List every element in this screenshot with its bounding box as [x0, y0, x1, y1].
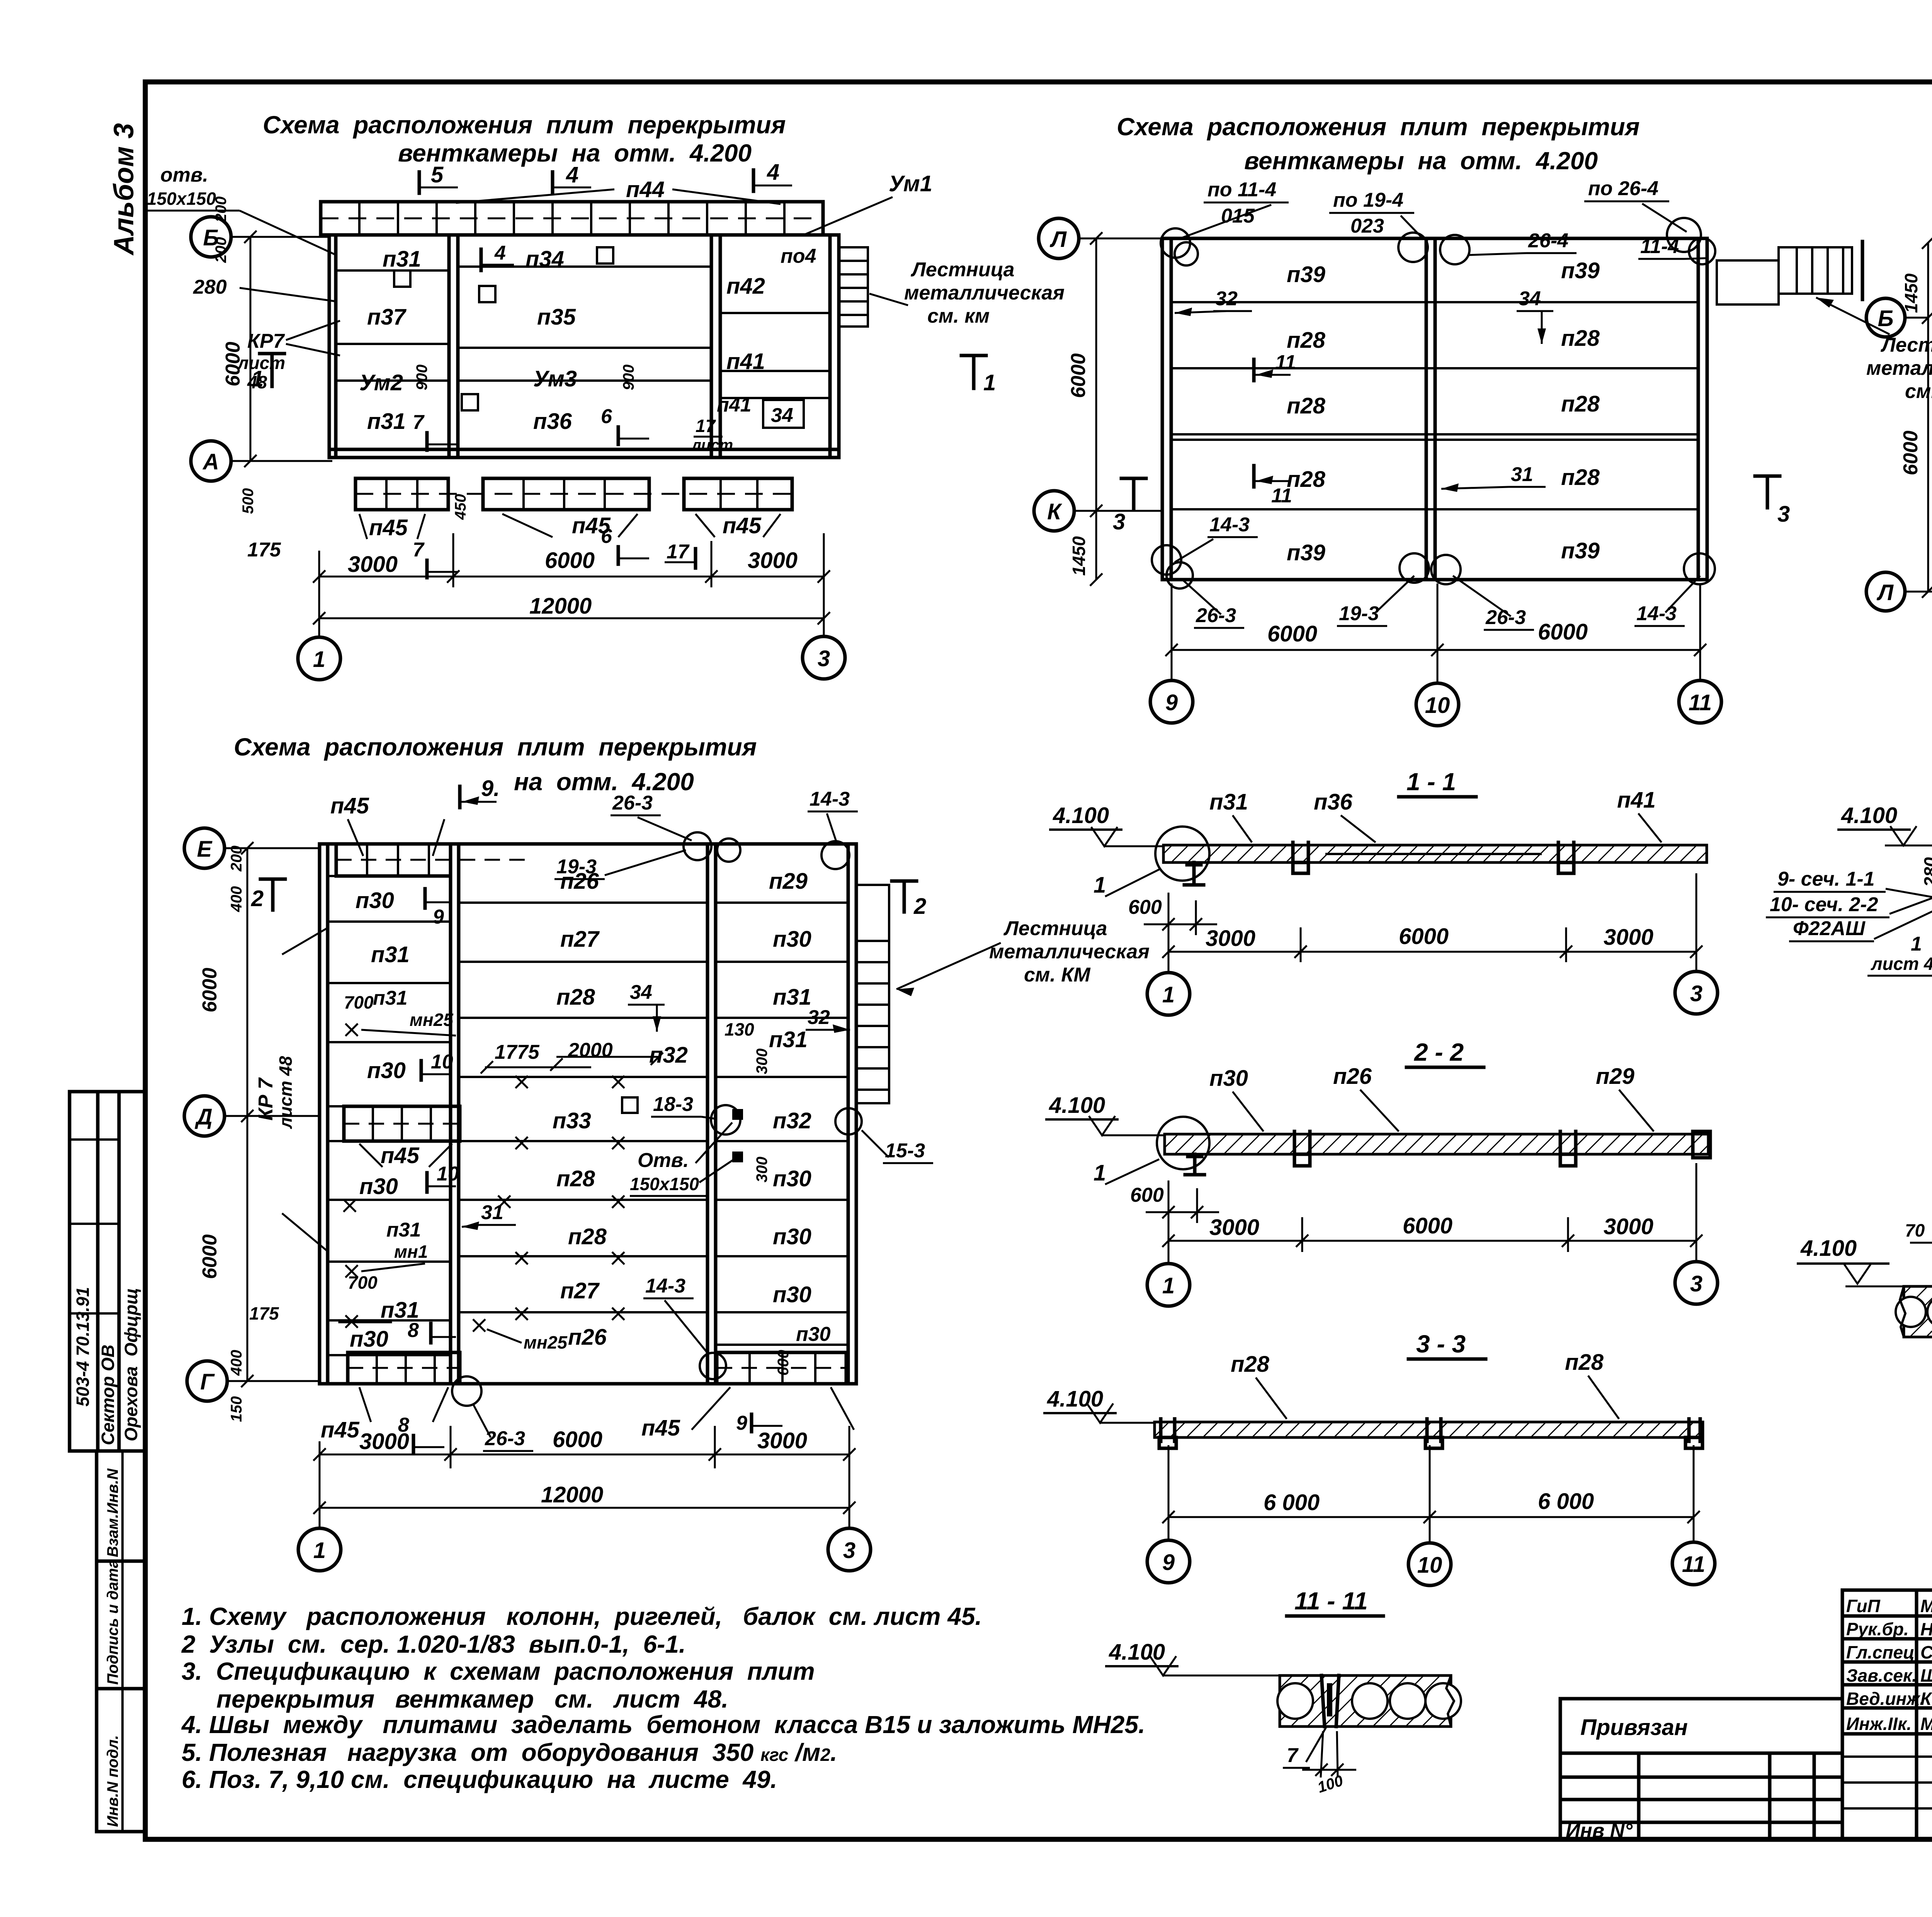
svg-text:280: 280 — [193, 276, 227, 298]
КР7 лист 48 rotated — [255, 927, 328, 1252]
svg-text:п28: п28 — [1287, 328, 1326, 353]
svg-text:п30: п30 — [773, 927, 811, 952]
svg-text:175: 175 — [247, 539, 281, 561]
svg-text:п36: п36 — [533, 409, 572, 434]
svg-text:Е: Е — [197, 837, 213, 862]
мн25 upper left — [344, 992, 456, 1036]
700 lower — [340, 1272, 390, 1328]
П45 labels bottom — [359, 514, 425, 540]
svg-text:Взам.Инв.N: Взам.Инв.N — [104, 1468, 121, 1557]
stairs right of plan — [839, 247, 868, 327]
svg-text:503-4 70.13.91: 503-4 70.13.91 — [73, 1287, 93, 1407]
right column slab lines — [720, 313, 830, 398]
svg-text:Б: Б — [1878, 306, 1893, 331]
svg-text:10: 10 — [431, 1051, 453, 1073]
dim 600 s22 — [1130, 1184, 1219, 1223]
П44 label — [456, 177, 781, 204]
svg-text:2000: 2000 — [568, 1039, 613, 1061]
svg-text:п31: п31 — [367, 409, 406, 434]
svg-text:18-3: 18-3 — [653, 1093, 693, 1116]
flag 8 left bottom — [408, 1319, 456, 1343]
svg-text:п31: п31 — [769, 1027, 808, 1052]
flag 11 upper — [1254, 351, 1296, 381]
svg-text:12000: 12000 — [529, 594, 592, 619]
svg-text:п35: п35 — [537, 304, 576, 330]
svg-text:26-3: 26-3 — [612, 792, 653, 814]
section flag 1 left — [251, 354, 284, 391]
svg-text:11: 11 — [1689, 690, 1712, 715]
лестница text scheme4 — [896, 917, 1150, 996]
leader 26-3 bottom mid — [1453, 576, 1534, 630]
svg-text:Л: Л — [1049, 227, 1067, 252]
elevation 4.100 s11 — [1049, 803, 1165, 846]
svg-text:34: 34 — [630, 981, 652, 1004]
svg-text:по4: по4 — [781, 245, 816, 267]
dim 1775 2000 — [481, 1039, 663, 1073]
svg-text:450: 450 — [452, 494, 469, 520]
svg-text:Подпись и дата: Подпись и дата — [104, 1560, 121, 1685]
left stamp column lower boxes — [97, 1451, 145, 1832]
svg-text:015: 015 — [1221, 205, 1255, 227]
svg-text:п41: п41 — [717, 394, 752, 416]
svg-text:п37: п37 — [367, 304, 407, 330]
П45 label at Д — [359, 1143, 452, 1168]
hole square П33 — [622, 1097, 638, 1113]
svg-text:п44: п44 — [626, 177, 665, 202]
svg-text:п26: п26 — [568, 1325, 607, 1350]
svg-text:023: 023 — [1350, 215, 1384, 237]
grid circle 10 — [1416, 683, 1459, 726]
17 лист — [691, 416, 733, 454]
label 34 scheme4 — [628, 981, 665, 1032]
vertical dim 6000 right plan — [1900, 318, 1932, 598]
svg-text:900: 900 — [413, 364, 430, 390]
svg-text:3000: 3000 — [348, 552, 398, 577]
svg-text:175: 175 — [249, 1303, 279, 1323]
svg-text:п45: п45 — [381, 1143, 420, 1168]
flag 9 bottom right — [736, 1412, 782, 1434]
circle 1 s11 — [1147, 973, 1190, 1015]
slab drawing s1010 — [1896, 1276, 1932, 1388]
svg-text:Стрехнин: Стрехнин — [1920, 1642, 1932, 1662]
svg-text:п28: п28 — [1561, 326, 1600, 351]
svg-text:19-3: 19-3 — [1339, 602, 1379, 625]
svg-text:32: 32 — [808, 1006, 830, 1029]
elevation 4.100 s22 — [1045, 1093, 1166, 1135]
flag 2 left — [251, 879, 285, 911]
svg-text:3000: 3000 — [1604, 925, 1653, 950]
svg-text:9: 9 — [1165, 690, 1178, 715]
leader 14-3 lower — [643, 1275, 726, 1379]
leader 19-3 bottom — [1337, 576, 1414, 626]
лестница text scheme2 — [1816, 298, 1932, 403]
grid circle 1 — [298, 618, 340, 680]
svg-text:п29: п29 — [1596, 1064, 1634, 1089]
svg-text:Рук.бр.: Рук.бр. — [1846, 1619, 1909, 1639]
elevation 4.100 s1010 — [1797, 1236, 1905, 1286]
svg-text:п30: п30 — [359, 1174, 398, 1199]
svg-text:п33: п33 — [553, 1108, 591, 1133]
svg-text:14-3: 14-3 — [1209, 514, 1250, 536]
svg-text:Кирьянова: Кирьянова — [1920, 1689, 1932, 1709]
svg-text:п45: п45 — [641, 1415, 680, 1441]
svg-text:КР7: КР7 — [247, 330, 285, 352]
svg-text:п39: п39 — [1287, 540, 1325, 565]
svg-text:п45: п45 — [723, 513, 762, 538]
svg-text:Ум3: Ум3 — [533, 366, 577, 391]
flag 5 — [419, 162, 458, 193]
svg-text:п41: п41 — [1617, 788, 1656, 813]
flag 4 lower mid — [481, 242, 514, 270]
flag 6 — [601, 405, 649, 444]
svg-text:15-3: 15-3 — [885, 1140, 925, 1162]
section 2-2 title — [1406, 1038, 1484, 1067]
svg-text:1. Схему расположения коло: 1. Схему расположения колонн, ригелей, б… — [182, 1602, 982, 1630]
svg-text:1 - 1: 1 - 1 — [1406, 768, 1456, 796]
svg-text:А: А — [202, 449, 219, 475]
middle column slab rows — [459, 903, 707, 1312]
interior wall at axis 2 area — [449, 235, 458, 458]
label 31 arrow — [1441, 463, 1546, 492]
dim row 1-1 — [1162, 873, 1702, 973]
svg-text:отв.: отв. — [160, 164, 208, 186]
svg-text:3: 3 — [1690, 981, 1702, 1006]
svg-text:700: 700 — [344, 992, 374, 1012]
svg-text:п32: п32 — [649, 1043, 688, 1068]
svg-text:4: 4 — [494, 242, 506, 264]
svg-text:9: 9 — [433, 906, 444, 928]
svg-text:Г: Г — [200, 1369, 215, 1395]
svg-text:1450: 1450 — [1901, 273, 1921, 313]
grid circle 3 bottom — [828, 1508, 871, 1571]
hatch band П45 bottom-right — [717, 1352, 846, 1384]
svg-text:200: 200 — [213, 196, 230, 223]
svg-text:п30: п30 — [367, 1058, 406, 1083]
svg-text:п28: п28 — [556, 1166, 595, 1191]
svg-text:4.100: 4.100 — [1800, 1236, 1857, 1261]
svg-text:металлическая: металлическая — [1866, 357, 1932, 379]
svg-text:см. КМ: см. КМ — [1024, 964, 1091, 986]
slab labels 3-3 — [1231, 1352, 1287, 1419]
grid circle 9 — [1150, 680, 1193, 723]
plan walls scheme2 — [1162, 238, 1707, 580]
svg-text:Орехова Офцрщ: Орехова Офцрщ — [121, 1288, 141, 1441]
circle 3 s22 — [1675, 1262, 1718, 1304]
flag 17 bottom — [665, 541, 696, 568]
svg-text:1: 1 — [1094, 1160, 1106, 1186]
slab band 3-3 — [1155, 1419, 1703, 1448]
dim 900 marks — [413, 364, 637, 390]
КР7 лист 48 label — [237, 321, 340, 392]
section 3-3 title — [1408, 1330, 1486, 1359]
right column slab rows — [716, 903, 848, 1345]
svg-text:600: 600 — [1130, 1184, 1164, 1206]
лестница text scheme1 — [869, 259, 1065, 327]
svg-text:9: 9 — [736, 1412, 747, 1434]
svg-text:1: 1 — [1094, 873, 1106, 898]
svg-text:1: 1 — [983, 370, 996, 395]
svg-text:п30: п30 — [350, 1327, 388, 1352]
svg-text:10: 10 — [1417, 1553, 1442, 1578]
отв 150х150 label — [147, 164, 336, 255]
label 31 scheme4 — [462, 1201, 516, 1230]
leader 14-3 upper left — [1175, 514, 1258, 562]
svg-text:6000: 6000 — [1900, 430, 1922, 475]
dim row 12000 — [313, 594, 830, 624]
plan outer walls — [329, 235, 839, 458]
interior wall right — [711, 235, 720, 458]
svg-text:п32: п32 — [773, 1108, 811, 1133]
personnel table — [1842, 1590, 1932, 1839]
dim row 2-2 — [1162, 1163, 1702, 1264]
flag 4 mid — [553, 162, 591, 193]
leader 26-3 top — [611, 792, 692, 840]
svg-text:п45: п45 — [369, 515, 408, 540]
section 11-11 title — [1287, 1587, 1383, 1616]
vertical dim 6000 upper — [199, 842, 253, 1122]
section 1-1 title — [1399, 768, 1476, 797]
svg-text:Схема расположения плит пер: Схема расположения плит перекрытия — [234, 733, 757, 761]
svg-text:п27: п27 — [560, 927, 600, 952]
П45 label bottom-left — [321, 1387, 448, 1442]
svg-text:1: 1 — [313, 1538, 326, 1563]
leader по 11-4 / 015 — [1182, 179, 1289, 238]
corner circles scheme4 top — [684, 832, 849, 869]
circle 10 s33 — [1408, 1543, 1451, 1585]
svg-text:9: 9 — [1162, 1550, 1175, 1575]
svg-text:п45: п45 — [330, 793, 369, 818]
vertical dim 6000 lower — [199, 1116, 253, 1387]
svg-text:1: 1 — [1911, 933, 1922, 955]
svg-text:по 19-4: по 19-4 — [1333, 189, 1403, 211]
leader 14-3 top right — [808, 788, 858, 842]
grid circle К — [1034, 491, 1163, 531]
svg-text:Номин: Номин — [1920, 1619, 1932, 1639]
svg-text:лист 45: лист 45 — [1871, 954, 1932, 974]
privyazan table — [1560, 1699, 1842, 1842]
label 32 with arrow — [1175, 287, 1252, 316]
middle column slab lines — [458, 267, 711, 381]
svg-text:26-3: 26-3 — [1485, 606, 1526, 629]
plan walls scheme4 — [320, 844, 856, 1384]
leader 14-3 bottom right — [1634, 576, 1700, 626]
svg-text:п45: п45 — [321, 1417, 360, 1442]
svg-text:6000: 6000 — [1538, 619, 1588, 645]
bottom dim row 12000 — [313, 1482, 855, 1514]
svg-text:п29: п29 — [769, 869, 808, 894]
svg-text:п28: п28 — [1561, 465, 1600, 490]
svg-text:3. Спецификацию к схемам р: 3. Спецификацию к схемам расположения пл… — [182, 1657, 815, 1685]
svg-text:по 26-4: по 26-4 — [1588, 177, 1658, 200]
top band П44 — [321, 202, 823, 235]
grid circle Г — [187, 1361, 321, 1401]
leader 26-3 bottom scheme4 — [452, 1376, 533, 1451]
svg-text:6 000: 6 000 — [1538, 1489, 1594, 1514]
svg-text:150: 150 — [228, 1396, 245, 1422]
svg-text:26-4: 26-4 — [1528, 230, 1568, 252]
circle 11 s33 — [1672, 1542, 1715, 1585]
slab 11-11 — [1277, 1675, 1461, 1726]
svg-text:металлическая: металлическая — [904, 282, 1065, 304]
corner node circles scheme2 — [1161, 228, 1198, 265]
svg-text:п28: п28 — [1565, 1350, 1604, 1375]
svg-text:Д: Д — [194, 1104, 213, 1129]
svg-text:130: 130 — [724, 1019, 754, 1039]
svg-text:300: 300 — [753, 1048, 770, 1074]
svg-text:3000: 3000 — [1604, 1214, 1653, 1239]
svg-text:3: 3 — [1777, 502, 1790, 527]
left column slab rows — [328, 876, 451, 1355]
svg-text:4. Швы между плитами задел: 4. Швы между плитами заделать бетоном кл… — [181, 1711, 1145, 1738]
svg-text:п30: п30 — [773, 1224, 811, 1249]
left stamp column upper box — [70, 1092, 145, 1451]
leader 7 s1111 — [1283, 1727, 1326, 1768]
hatch band П45 bottom-left — [348, 1352, 460, 1384]
svg-text:11-4: 11-4 — [1640, 235, 1679, 258]
svg-text:11: 11 — [1682, 1552, 1705, 1577]
svg-text:п31: п31 — [773, 985, 811, 1010]
svg-text:200: 200 — [213, 237, 230, 263]
grid circle 1 bottom — [298, 1508, 341, 1571]
svg-text:600: 600 — [775, 1350, 792, 1376]
leader 18-3 — [651, 1093, 740, 1135]
flag 11 lower — [1254, 466, 1292, 507]
svg-text:31: 31 — [481, 1201, 503, 1224]
svg-text:3 - 3: 3 - 3 — [1416, 1330, 1466, 1358]
svg-text:1: 1 — [1162, 1273, 1175, 1298]
grid circle Б right — [1866, 298, 1932, 337]
flag 4 right — [753, 160, 792, 191]
svg-text:металлическая: металлическая — [989, 941, 1150, 963]
svg-text:по 11-4: по 11-4 — [1207, 179, 1276, 201]
svg-text:Схема расположения плит пер: Схема расположения плит перекрытия — [263, 111, 786, 139]
svg-text:Схема расположения плит пер: Схема расположения плит перекрытия — [1117, 113, 1639, 141]
svg-text:6000: 6000 — [1399, 924, 1449, 949]
svg-text:Ум1: Ум1 — [889, 171, 932, 196]
svg-text:п31: п31 — [383, 247, 421, 272]
svg-text:п28: п28 — [1231, 1352, 1270, 1377]
circle 1 s22 — [1147, 1264, 1190, 1306]
svg-text:700: 700 — [348, 1272, 378, 1293]
svg-text:17: 17 — [696, 416, 716, 436]
grid circle 11 — [1679, 680, 1721, 723]
svg-text:6000: 6000 — [199, 968, 221, 1012]
dim 280 — [193, 276, 336, 301]
svg-text:Альбом 3: Альбом 3 — [109, 123, 139, 256]
svg-text:10: 10 — [1425, 693, 1450, 718]
svg-text:п31: п31 — [386, 1219, 421, 1241]
stairs top right scheme2 — [1717, 242, 1862, 304]
svg-text:3: 3 — [818, 646, 830, 671]
svg-text:6: 6 — [601, 405, 612, 428]
svg-text:венткамеры на отм. 4.200: венткамеры на отм. 4.200 — [1244, 147, 1598, 175]
wall squares — [732, 1109, 743, 1162]
svg-text:4.100: 4.100 — [1047, 1386, 1103, 1412]
small dims 200 400 top — [228, 845, 245, 912]
svg-text:п31: п31 — [371, 942, 410, 967]
svg-text:4: 4 — [566, 162, 578, 187]
svg-text:3000: 3000 — [757, 1428, 807, 1453]
svg-text:3000: 3000 — [1209, 1215, 1259, 1240]
leader 26-3 bottom — [1182, 580, 1244, 628]
slab labels 2-2 — [1209, 1066, 1264, 1131]
мн25 bottom — [473, 1319, 568, 1352]
elevation 4.100 node1 — [1837, 803, 1932, 845]
grid circle А — [191, 441, 332, 481]
svg-text:Михайлова: Михайлова — [1920, 1714, 1932, 1734]
node circle at left end 2-2 — [1157, 1117, 1209, 1175]
svg-text:34: 34 — [1519, 287, 1541, 310]
svg-text:300: 300 — [753, 1157, 770, 1182]
svg-text:6000: 6000 — [1267, 621, 1317, 646]
hole squares — [394, 247, 613, 410]
vertical dim 1450 right plan — [1901, 236, 1932, 324]
svg-text:5: 5 — [431, 162, 444, 187]
svg-text:600: 600 — [1128, 896, 1162, 919]
П45 label top — [330, 793, 444, 856]
svg-text:п28: п28 — [568, 1224, 607, 1249]
flag 9 left top inner — [425, 889, 450, 928]
svg-text:п26: п26 — [1333, 1064, 1372, 1089]
svg-text:6000: 6000 — [199, 1234, 221, 1279]
left column slab lines — [336, 270, 449, 381]
svg-text:п28: п28 — [1287, 393, 1326, 418]
svg-text:мн25: мн25 — [410, 1010, 454, 1030]
x marks middle column — [498, 1076, 624, 1320]
flag 6 bottom — [601, 525, 649, 564]
svg-text:п30: п30 — [355, 888, 394, 913]
dims 70 50 left s1010 — [1905, 1219, 1932, 1286]
svg-text:2: 2 — [251, 886, 264, 911]
сеч leaders node1 — [1766, 868, 1932, 941]
svg-text:п28: п28 — [556, 985, 595, 1010]
svg-text:Лестница: Лестница — [910, 259, 1014, 281]
svg-text:на отм. 4.200: на отм. 4.200 — [514, 768, 694, 796]
dims 130 300 300 — [724, 1019, 770, 1182]
node circle at left end 1-1 — [1155, 827, 1209, 885]
svg-text:лист: лист — [691, 437, 733, 454]
svg-text:280: 280 — [1920, 857, 1932, 887]
slab band 1-1 — [1163, 842, 1707, 873]
svg-text:4.100: 4.100 — [1109, 1640, 1165, 1665]
grid circle 3 — [803, 618, 845, 679]
flag 7 bottom — [413, 539, 458, 578]
svg-text:14-3: 14-3 — [645, 1275, 685, 1297]
flag 7 — [413, 411, 458, 450]
hatch band П45 at Д — [344, 1106, 460, 1141]
leader 19-3 — [554, 850, 686, 879]
svg-text:1: 1 — [1162, 982, 1175, 1007]
leader 1 node — [1094, 869, 1159, 898]
svg-text:Зав.сек.: Зав.сек. — [1846, 1665, 1917, 1686]
svg-text:мн25: мн25 — [524, 1332, 568, 1352]
svg-text:150х150: 150х150 — [147, 189, 216, 209]
svg-text:п34: п34 — [526, 247, 564, 272]
svg-text:2 Узлы см. сер. 1.020-1/83: 2 Узлы см. сер. 1.020-1/83 вып.0-1, 6-1. — [181, 1630, 686, 1658]
svg-text:400: 400 — [228, 1350, 245, 1376]
bottom band П45 groups — [355, 478, 792, 510]
svg-text:лист 48: лист 48 — [276, 1056, 296, 1129]
svg-text:3000: 3000 — [1206, 926, 1255, 951]
bottom dim row scheme2 — [1165, 583, 1706, 683]
svg-text:6 000: 6 000 — [1264, 1490, 1320, 1515]
svg-text:п27: п27 — [560, 1278, 600, 1303]
svg-text:п41: п41 — [726, 349, 765, 374]
svg-text:31: 31 — [1511, 463, 1533, 486]
svg-text:п28: п28 — [1287, 467, 1326, 492]
flag 9 top — [460, 776, 500, 808]
dim row 3-3 — [1162, 1445, 1700, 1543]
